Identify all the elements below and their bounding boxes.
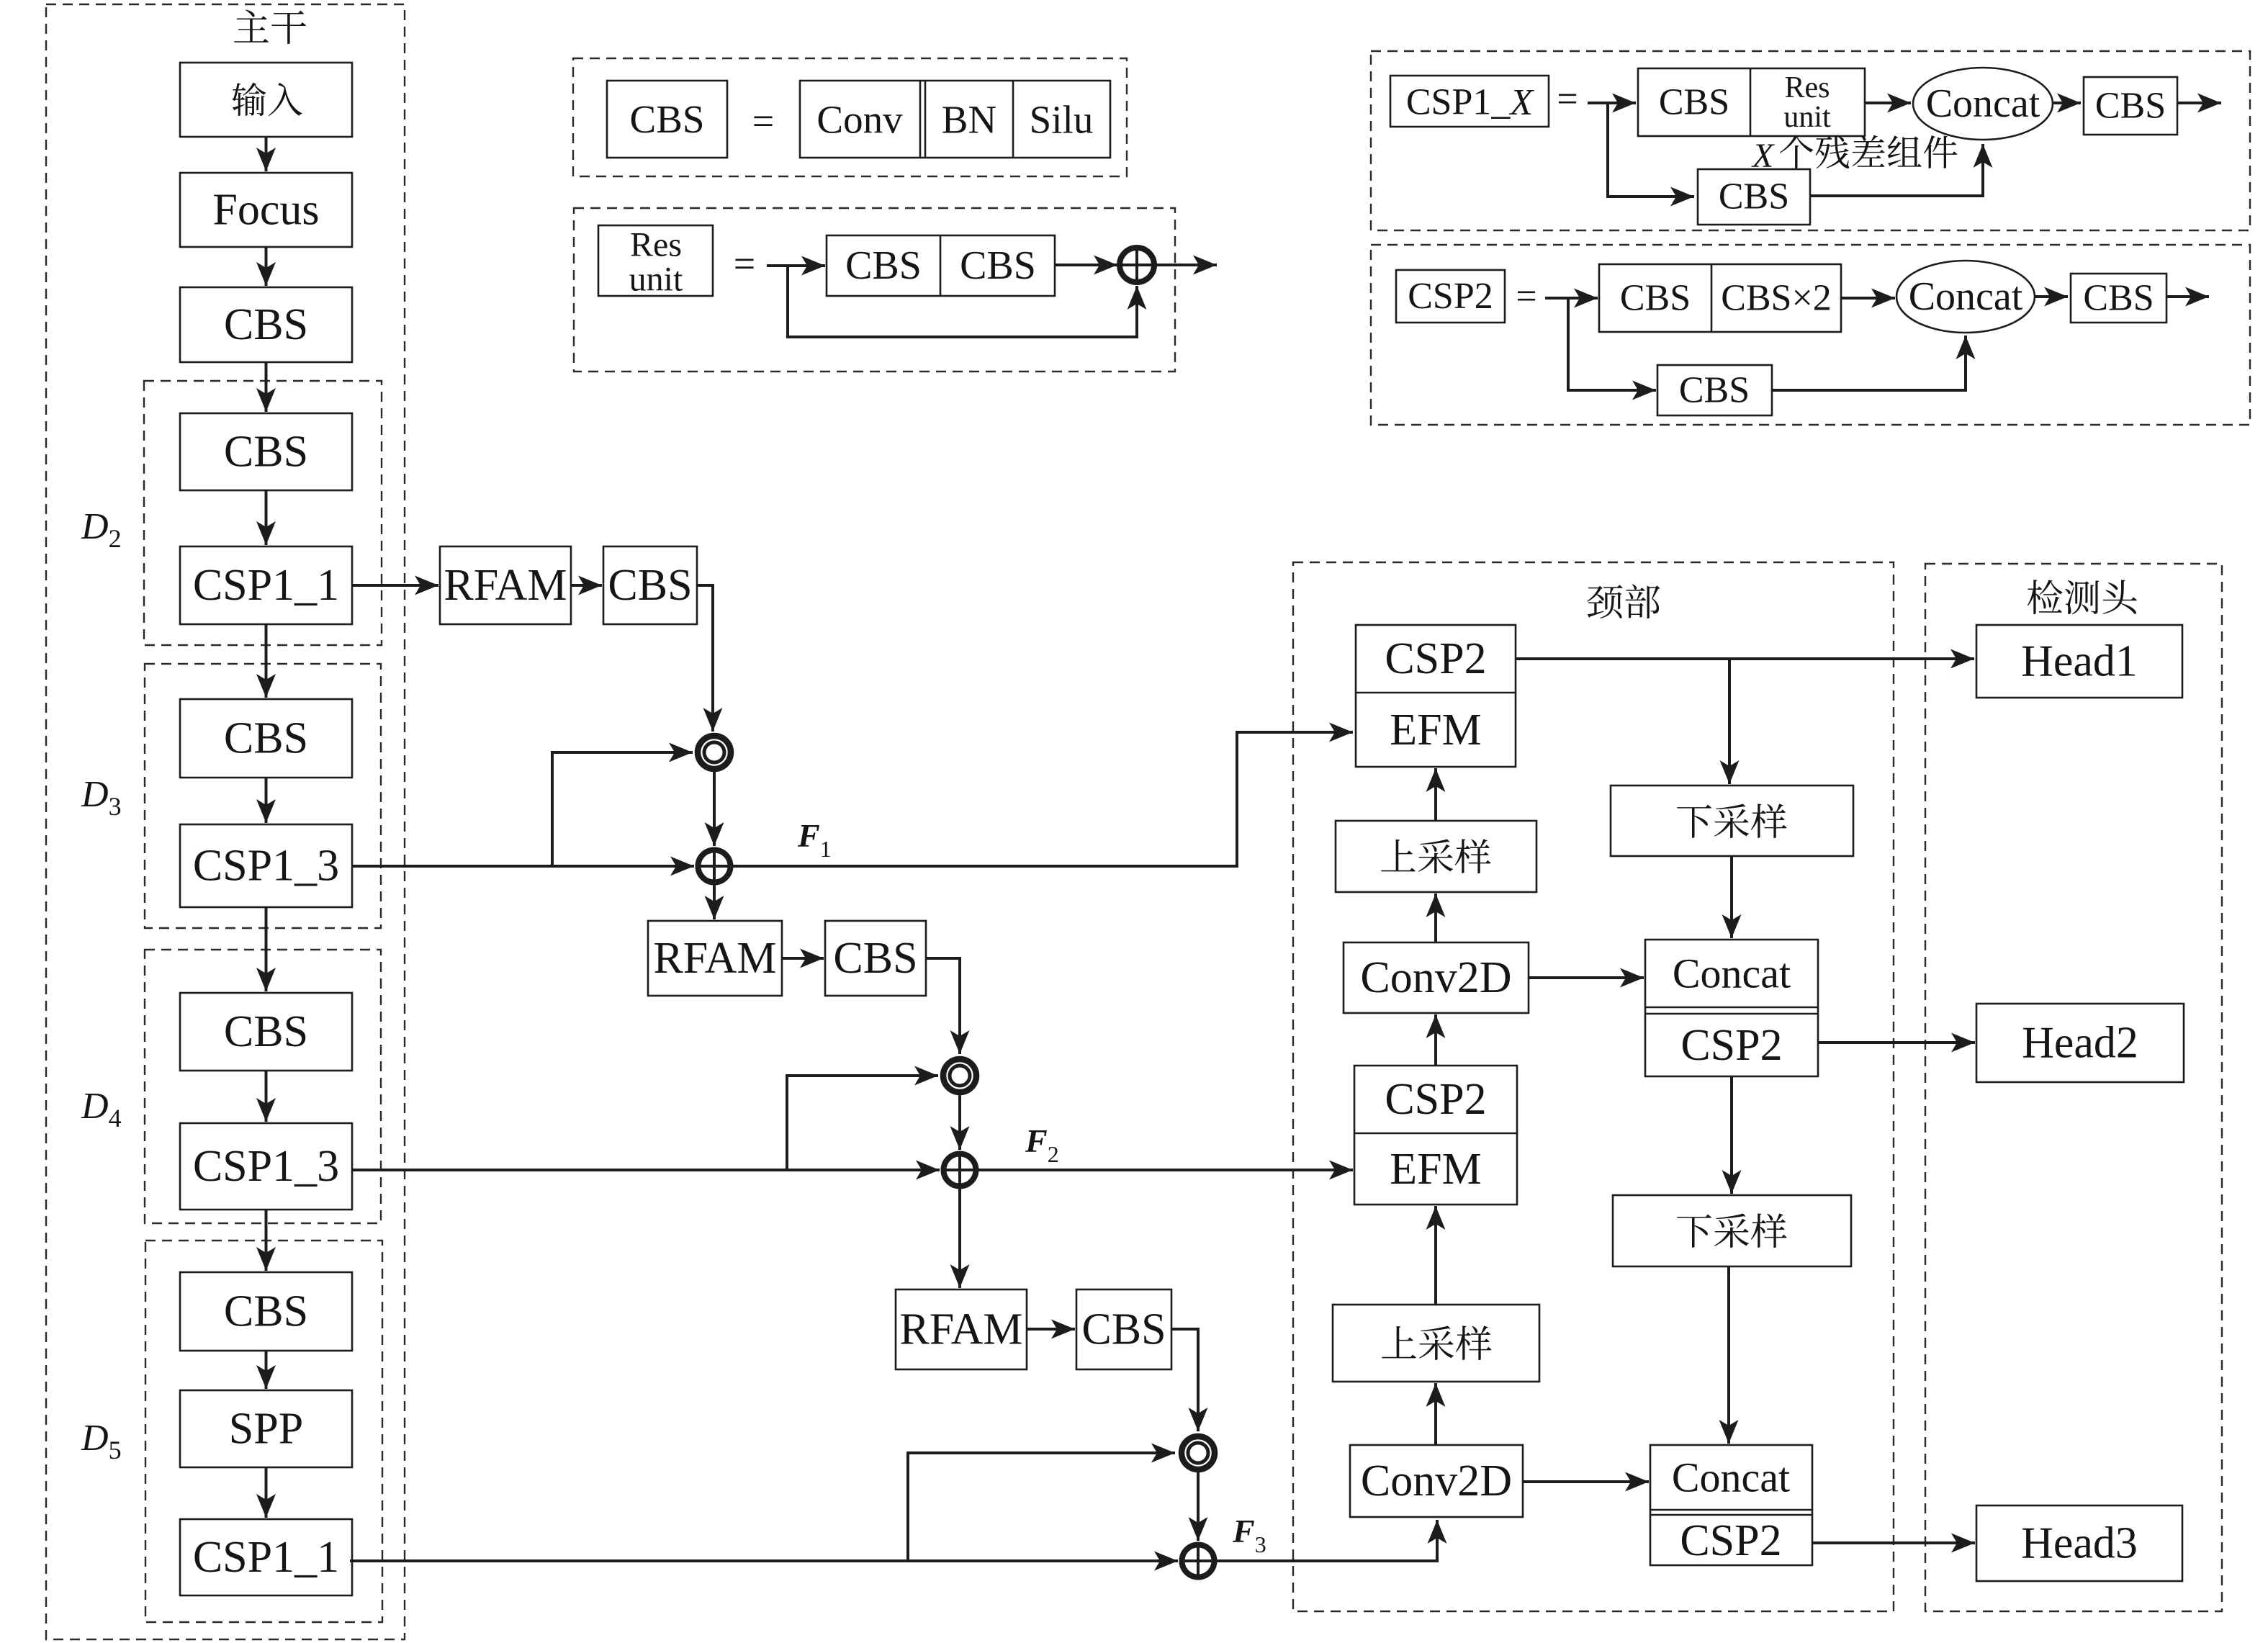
legend block CBS lower (csp1) [1698,169,1810,225]
wire concat node 3 to add node 3 [1189,1472,1208,1541]
block CSP1_3 in D3 [180,824,352,907]
node legend add [1120,248,1154,282]
legend block Res unit [598,225,713,299]
wire legend csp2 output [2166,287,2209,307]
wire legend csp1 input [1588,94,1636,113]
svg-text:D3: D3 [81,774,122,821]
block CBS after RFAM level-3 [1076,1289,1171,1369]
wire 上采样 1 up to EFM top stack [1426,768,1446,821]
svg-text:CBS: CBS [1081,1305,1166,1354]
legend block CSP1_X [1390,76,1549,127]
label 上采样 1 text [1381,839,1490,873]
block Conv2D 2 [1350,1445,1523,1517]
svg-text:CSP1_X: CSP1_X [1406,82,1535,123]
wire backbone arrow 2 [256,247,276,286]
svg-text:CBS: CBS [2095,86,2166,127]
wire add node 2 down to RFAM level-3 [950,1189,970,1288]
svg-text:CSP2: CSP2 [1680,1516,1781,1565]
svg-text:CSP2: CSP2 [1408,276,1493,317]
block CBS in D5 [180,1272,352,1351]
svg-text:CBS: CBS [224,1287,308,1336]
wire branch up into concat node 3 [908,1444,1175,1562]
wire backbone arrow 11 [256,1467,276,1518]
svg-text:CBS: CBS [224,714,308,763]
wire RFAM to CBS level-2 [782,949,824,968]
node add 2 (F2) [944,1154,976,1187]
wire CBS down to concat node 3 [1171,1329,1208,1431]
wire legend concat to CBS out [2053,94,2081,113]
svg-text:CBS: CBS [833,934,917,983]
block Concat/CSP2 stack 2 [1650,1445,1812,1565]
node channel-concat 1 [698,736,731,769]
wire backbone arrow 4 [256,490,276,545]
svg-text:CBS: CBS [608,561,692,610]
svg-text:unit: unit [629,261,683,299]
svg-text:CSP1_3: CSP1_3 [193,1142,339,1191]
wire branch up into concat node 2 [787,1066,938,1171]
wire concat node 2 to add node 2 [950,1095,970,1150]
block CBS in D3 [180,699,352,778]
svg-text:F2: F2 [1025,1122,1059,1167]
wire backbone arrow 6 [256,778,276,823]
block CBS after RFAM level-2 [825,921,926,996]
svg-text:RFAM: RFAM [653,934,776,983]
title 主干 (backbone) [234,9,306,44]
wire concat node 1 to add node 1 [705,772,724,846]
svg-text:CBS: CBS [845,243,922,288]
svg-text:Head1: Head1 [2021,637,2138,686]
title 检测头 (detection head) [2028,580,2137,614]
block SPP in D5 [180,1390,352,1467]
svg-text:CSP1_1: CSP1_1 [193,1533,339,1582]
svg-text:Concat: Concat [1926,81,2040,126]
svg-text:F3: F3 [1232,1513,1266,1557]
block CBS backbone-1 [180,287,352,362]
wire CSP2 2 to Head3 [1812,1534,1975,1553]
node add 3 (F3) [1182,1545,1215,1577]
svg-text:Concat: Concat [1909,274,2023,319]
wire branch down to 下采样 1 [1720,659,1740,784]
block 上采样 upsample 2 [1333,1305,1539,1382]
wire CSP2 top to Head1 [1516,649,1974,669]
legend block CBS + CBSx2 [1599,264,1841,332]
legend ellipse Concat 1 [1913,68,2053,140]
block CBS in D4 [180,993,352,1071]
wire backbone arrow 1 [256,137,276,171]
dashed container legend CSP1_X [1371,51,2250,230]
svg-text:Silu: Silu [1030,98,1094,142]
wire F2 to EFM middle stack [978,1161,1353,1180]
node channel-concat 3 [1182,1436,1215,1469]
svg-text:CBS: CBS [224,300,308,349]
dashed container legend CSP2 [1371,245,2250,425]
wire legend csp1 output [2177,94,2221,113]
dashed container backbone 主干 [46,4,405,1639]
wire CBS down to concat node 1 [697,585,723,732]
block Head1 [1976,625,2182,698]
wire legend csp2 lower to concat bottom [1772,336,1976,390]
svg-text:Head2: Head2 [2022,1019,2138,1068]
block CSP1_1 in D2 [180,546,352,624]
dashed container head 检测头 [1925,564,2222,1611]
svg-text:unit: unit [1783,101,1831,134]
label 上采样 2 text [1382,1325,1491,1360]
svg-text:RFAM: RFAM [899,1305,1022,1354]
wire F3 up into Conv2D bottom [1217,1520,1447,1561]
legend block CBS [607,81,727,158]
svg-text:Concat: Concat [1672,1454,1790,1501]
wire F1 to EFM top stack [733,723,1353,867]
block Conv2D 1 [1344,942,1529,1013]
block RFAM level-3 [896,1289,1027,1369]
svg-text:CSP2: CSP2 [1385,634,1486,683]
svg-text:D2: D2 [81,506,122,553]
legend block CBS output (csp1) [2084,77,2177,135]
svg-text:Focus: Focus [212,186,319,235]
svg-text:CBS: CBS [1620,278,1691,319]
wire add node 1 down to RFAM level-2 [705,885,724,919]
wire legend cbsx2 to concat [1841,289,1895,308]
block CSP1_1 in D5 [180,1519,352,1595]
svg-text:CBS: CBS [960,243,1036,288]
wire backbone arrow 3 [256,362,276,412]
block 下采样 downsample 2 [1613,1195,1851,1266]
svg-text:EFM: EFM [1390,1145,1481,1194]
block RFAM level-2 [648,921,782,996]
wire CSP1_3(D4) to add node 2 [352,1161,940,1180]
block RFAM level-1 [440,546,571,624]
svg-text:CBS: CBS [2083,278,2154,319]
svg-text:=: = [752,99,774,143]
svg-text:=: = [734,242,755,285]
label 下采样 2 text [1677,1213,1786,1248]
block Concat/CSP2 stack 1 [1645,940,1818,1076]
svg-text:Conv2D: Conv2D [1361,1457,1512,1505]
svg-text:=: = [1557,79,1578,120]
svg-text:BN: BN [942,98,996,142]
svg-text:CSP1_3: CSP1_3 [193,842,339,891]
wire RFAM to CBS level-1 [571,576,602,595]
wire backbone arrow 7 [256,907,276,991]
wire legend csp1 lower branch [1608,103,1694,207]
wire legend csp2 input [1545,289,1598,308]
wire branch up into concat node 1 [552,743,693,867]
svg-text:SPP: SPP [229,1405,303,1454]
svg-text:CBS: CBS [224,1007,308,1056]
legend block CBS lower (csp2) [1657,365,1772,415]
dashed container legend Res unit [574,208,1175,372]
dashed container legend CBS [573,58,1127,176]
wire CSP1_1(D5) to add node 3 [350,1552,1178,1571]
wire backbone arrow 8 [256,1071,276,1122]
wire Conv2D 2 to Concat 2 [1523,1472,1649,1492]
wire CSP1_1(D2) to RFAM [352,576,438,595]
block Head3 [1976,1505,2182,1581]
svg-text:F1: F1 [797,817,832,862]
wire 下采样 1 to Concat 1 [1722,856,1742,938]
wire CSP1_3(D3) to add node 1 [353,857,694,876]
node channel-concat 2 [943,1059,976,1092]
block CBS after RFAM level-1 [603,546,697,624]
svg-text:D4: D4 [81,1086,122,1133]
wire legend csp2 lower branch [1568,298,1656,400]
label 输入 text [232,83,302,117]
block Head2 [1976,1004,2184,1082]
svg-text:Concat: Concat [1673,950,1791,997]
wire Conv2D 1 up to 上采样 1 [1426,893,1446,942]
dashed container neck 颈部 [1293,562,1894,1611]
svg-text:Res: Res [630,226,682,264]
svg-text:CBS: CBS [630,97,705,141]
svg-text:CBS: CBS [1679,370,1750,411]
block CSP1_3 in D4 [180,1123,352,1210]
svg-text:CBS: CBS [224,428,308,477]
block CSP2/EFM stack middle [1354,1066,1517,1205]
wire Conv2D 1 to Concat 1 [1529,968,1644,988]
svg-text:Conv: Conv [816,98,903,142]
svg-text:EFM: EFM [1390,706,1481,755]
block 输入 (input) [180,63,352,137]
block 上采样 upsample 1 [1336,821,1536,892]
wire Concat/CSP2 1 to 下采样 2 [1722,1076,1742,1194]
svg-text:CSP2: CSP2 [1680,1021,1782,1070]
wire backbone arrow 10 [256,1351,276,1389]
wire backbone arrow 5 [256,624,276,698]
dashed container D3 [145,664,381,928]
wire legend res-unit output [1154,256,1217,275]
dashed container D2 [144,381,382,645]
legend block CSP2 [1396,270,1505,323]
legend ellipse Concat 2 [1896,261,2035,333]
wire CSP2 middle up to Conv2D 1 [1426,1014,1446,1066]
wire RFAM to CBS level-3 [1027,1320,1075,1339]
wire legend csp1 lower to concat bottom [1810,144,1993,196]
block CSP2/EFM stack top [1356,625,1516,767]
wire backbone arrow 9 [256,1210,276,1271]
title 颈部 (neck) [1587,584,1660,618]
svg-text:RFAM: RFAM [444,561,567,610]
svg-text:=: = [1516,276,1536,318]
svg-text:CBS×2: CBS×2 [1721,278,1832,319]
wire legend res-unit to concat [1865,94,1911,113]
svg-text:CBS: CBS [1719,176,1789,217]
wire legend res-unit skip connection [788,266,1147,337]
svg-text:CBS: CBS [1659,82,1729,123]
wire legend concat2 to CBS out [2035,287,2068,307]
svg-text:CSP2: CSP2 [1385,1075,1486,1124]
dashed container D5 [145,1241,382,1622]
block 下采样 downsample 1 [1611,786,1853,856]
dashed container D4 [145,950,381,1223]
legend block CBS + Res unit [1638,68,1865,136]
block CBS in D2 [180,413,352,490]
label 下采样 1 text [1677,804,1786,838]
wire CBS down to concat node 2 [926,958,970,1054]
wire CSP2 1 to Head2 [1818,1033,1975,1053]
label 个残差组件 text [1780,135,1958,168]
legend block CBS CBS pair [827,235,1055,296]
wire 下采样 2 to Concat 2 [1719,1266,1739,1444]
block Focus [180,173,352,247]
svg-text:CSP1_1: CSP1_1 [193,561,339,610]
wire Conv2D 2 up to 上采样 2 [1426,1383,1446,1445]
legend block CBS output (csp2) [2071,274,2166,323]
wire legend res-unit input [767,256,825,276]
svg-text:Head3: Head3 [2021,1519,2138,1568]
legend table Conv BN Silu [800,81,1110,158]
wire 上采样 2 up to EFM middle stack [1426,1206,1446,1305]
svg-text:Conv2D: Conv2D [1360,953,1511,1002]
wire legend CBS pair to add [1055,256,1117,275]
svg-text:Res: Res [1785,71,1830,104]
node add 1 (F1) [698,850,731,883]
svg-text:D5: D5 [81,1418,122,1464]
